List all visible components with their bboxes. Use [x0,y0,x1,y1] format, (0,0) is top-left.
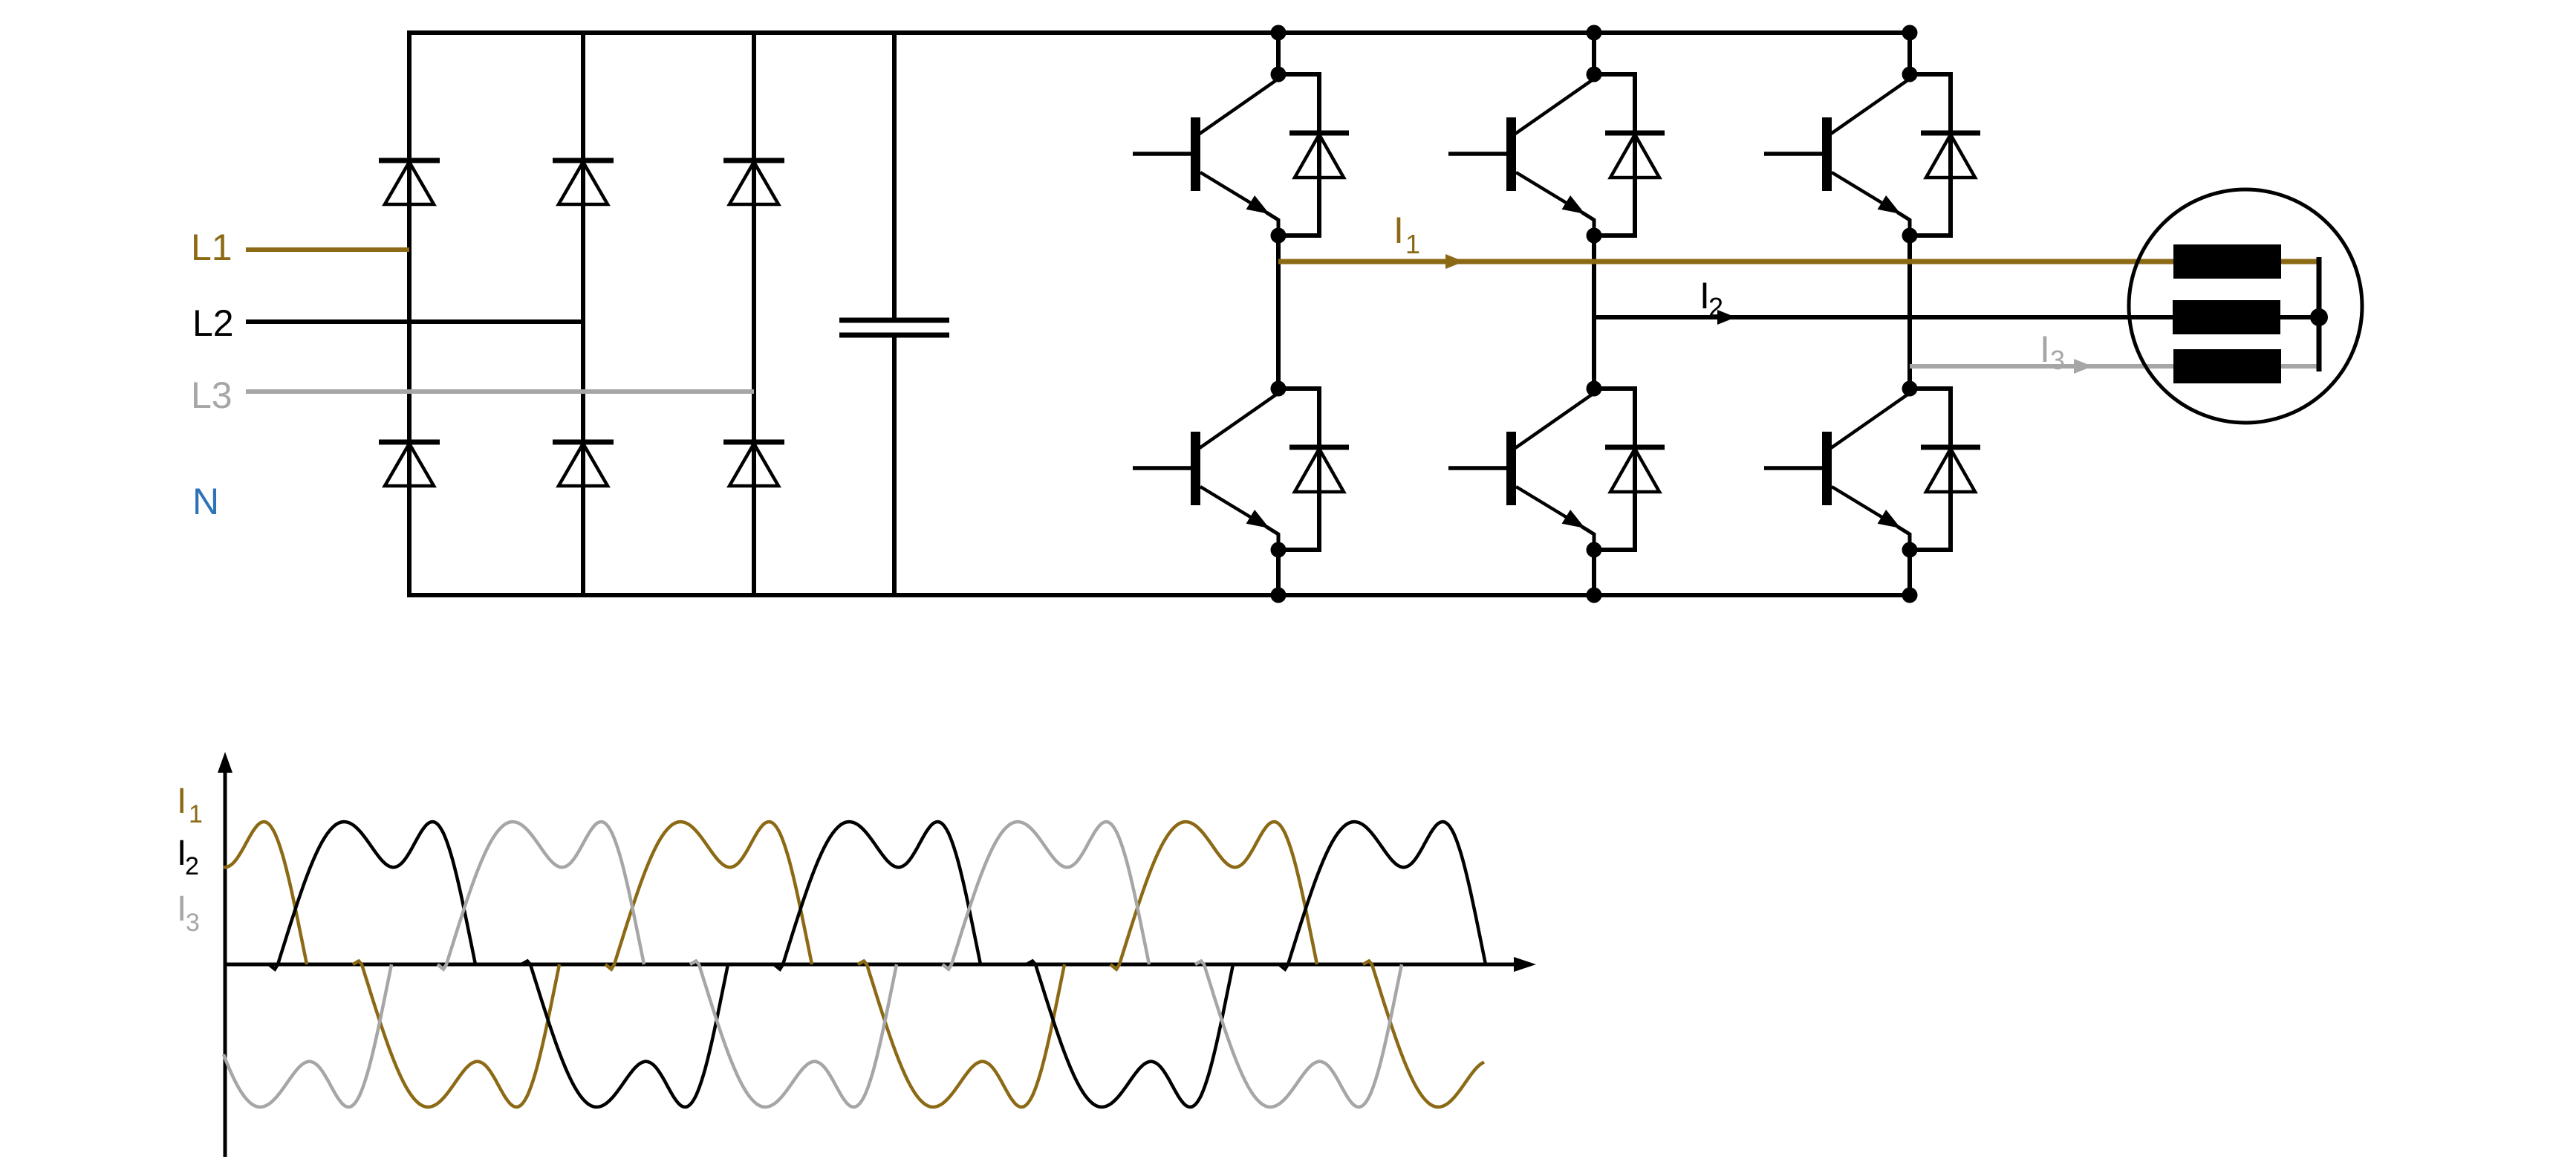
transistor Q5 (IGBT upper) [1764,79,1910,236]
wire inverter leg 1 bottom stub [1276,550,1281,595]
node waveform I3 label [177,889,200,937]
wire I2 phase output [1594,310,2319,325]
node I1 label [1393,210,1420,259]
wire phase node 3 vertical [1907,236,1912,389]
svg-text:1: 1 [189,800,203,828]
diode D3 upper rectifier [723,160,784,204]
wire waveform curve I3 [224,822,1402,1107]
wire inverter leg 2 bottom stub [1592,550,1596,595]
wire waveform curve I2 [269,822,1486,1107]
wire DC- bottom rail [409,593,1910,597]
diode D2 upper rectifier [553,160,614,204]
wire rectifier leg 3 [752,30,756,597]
wire inverter leg 3 bottom stub [1907,550,1912,595]
svg-text:3: 3 [2050,345,2065,375]
wire rectifier leg 1 [407,30,412,597]
wire phase node 1 vertical [1276,236,1281,389]
wire I1 phase output [1278,254,2319,269]
node waveform I2 label [177,834,199,880]
node waveform X axis [225,957,1536,972]
svg-text:L1: L1 [191,227,232,268]
diode D6f freewheel of Q6 [1910,389,1980,550]
svg-text:L3: L3 [191,374,232,416]
diode D1 upper rectifier [379,160,440,204]
diode D2f freewheel of Q2 [1278,389,1349,550]
svg-text:I: I [177,782,186,821]
svg-text:N: N [192,481,219,522]
wire inverter leg 1 top stub [1276,33,1281,74]
wire L1 input [246,247,409,252]
wire inverter leg 2 top stub [1592,33,1596,74]
svg-text:L2: L2 [192,302,234,344]
diode D4f freewheel of Q4 [1594,389,1665,550]
diode D4 lower rectifier [379,442,440,486]
motor M1 [2129,189,2362,423]
wire waveform curve I1 [224,822,1484,1107]
svg-text:2: 2 [1708,292,1723,322]
diode D6 lower rectifier [723,442,784,486]
wire I3 phase output [1910,359,2319,374]
diode D1f freewheel of Q1 [1278,74,1349,236]
node junction dots leg 3 [1902,25,1918,603]
wire rectifier leg 2 [581,30,585,597]
svg-text:3: 3 [186,909,200,937]
transistor Q2 (IGBT lower) [1133,393,1278,550]
node junction dots leg 2 [1587,25,1602,603]
transistor Q6 (IGBT lower) [1764,393,1910,550]
transistor Q4 (IGBT lower) [1448,393,1594,550]
node waveform Y axis [218,752,232,1157]
svg-text:I: I [2040,328,2050,370]
wire phase node 2 vertical [1592,236,1596,389]
wire inverter leg 3 top stub [1907,33,1912,74]
node I3 label [2040,328,2065,375]
svg-text:1: 1 [1405,229,1420,259]
transistor Q1 (IGBT upper) [1133,79,1278,236]
wire L3 input [246,389,754,394]
svg-text:I: I [1393,210,1404,251]
node junction dots leg 1 [1271,25,1287,603]
wire L2 input [246,319,583,324]
wire DC+ top rail [409,30,1910,35]
diode D5 lower rectifier [553,442,614,486]
node waveform I1 label [177,782,203,828]
node I2 label [1700,275,1723,322]
svg-text:2: 2 [185,852,199,880]
capacitor C1 DC link [839,30,949,597]
transistor Q3 (IGBT upper) [1448,79,1594,236]
diode D5f freewheel of Q5 [1910,74,1980,236]
diode D3f freewheel of Q3 [1594,74,1665,236]
